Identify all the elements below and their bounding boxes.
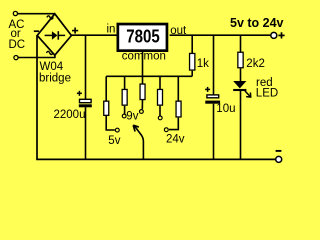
wire LED to ground [240,90,242,159]
wire LED branch top [240,35,242,52]
terminal 24v [164,128,168,132]
ground rail [36,158,275,160]
svg-text:7805: 7805 [126,27,160,47]
svg-text:out: out [170,25,187,37]
LED D1 [233,81,251,97]
wire input bottom [18,55,55,58]
capacitor C2 10u [205,87,220,159]
svg-text:common: common [122,51,166,63]
resistor R2 (9v tap) [122,76,127,113]
resistor R3 (middle tap) [140,77,145,109]
svg-text:in: in [107,23,116,35]
wire common pin down [142,51,144,77]
terminal output plus [271,32,277,38]
terminal R4 tap [158,116,162,120]
svg-text:9v: 9v [126,111,138,123]
resistor R1 (5v tap) [104,76,115,130]
svg-text:W04: W04 [40,61,64,73]
svg-text:2200u: 2200u [54,109,86,121]
svg-text:5v: 5v [108,135,120,147]
label minus output [276,150,282,152]
terminal 5v [115,128,119,132]
regulator U1 7805 [118,24,167,51]
svg-text:24v: 24v [166,134,185,146]
resistor R4 [158,76,163,115]
terminal input bottom [14,56,18,60]
terminal 9v [122,114,126,118]
wire bridge positive to regulator in [71,34,119,36]
svg-text:5v to 24v: 5v to 24v [230,16,284,30]
wire 2k2 to LED [240,68,242,81]
resistor R7 2k2 [238,52,243,68]
wire bridge negative to ground [36,36,38,160]
resistor bus wire [106,75,192,77]
wire 10u branch [213,35,215,94]
svg-text:bridge: bridge [39,73,71,85]
svg-text:10u: 10u [216,103,235,115]
svg-text:2k2: 2k2 [246,58,265,70]
resistor R6 1k [190,35,195,76]
svg-text:1k: 1k [197,58,209,70]
svg-text:DC: DC [9,39,26,51]
selector arrow wire [133,125,143,159]
svg-text:LED: LED [256,88,278,100]
capacitor C1 2200u [77,35,92,159]
terminal input top [13,11,17,15]
resistor R5 (24v tap) [169,76,181,129]
label plus output [278,32,284,38]
terminal output minus [276,156,282,162]
wire out rail [170,34,271,36]
bridge rectifier W04 [34,14,78,55]
terminal middle tap [140,110,144,114]
wire input top [18,13,55,15]
